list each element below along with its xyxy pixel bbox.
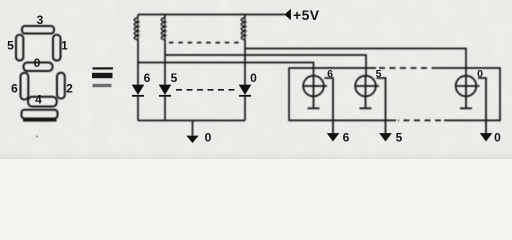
+5V arrow [285,10,291,20]
svg-text:6: 6 [343,131,350,145]
node 0 wire [245,49,466,77]
svg-text:6: 6 [144,71,151,85]
cathode bus wire [138,96,245,121]
seven-segment display: segment 2 (lower-right) [57,73,65,99]
svg-text:5: 5 [171,71,178,85]
ground symbol for lamp 5 [380,134,391,141]
svg-text:6: 6 [11,82,18,96]
seven-segment display: segment 4 (bottom) [28,97,57,107]
LED diode D0 [239,85,251,96]
node 6 wire [138,63,314,77]
resistor R2 vertical wire [164,15,166,86]
lamp L6 [303,76,334,134]
lamp L5 [355,76,386,134]
LED diode D5 [159,85,171,96]
seven-segment display: segment 6 (lower-left) [21,73,29,100]
resistor R2 zigzag [164,17,166,40]
svg-text:5: 5 [376,68,382,80]
+5V supply rail [138,14,285,16]
seven-segment display: segment 5 (upper-left) [16,35,23,61]
seven-segment display: bottom rim [22,110,58,119]
svg-text:0: 0 [494,131,501,145]
LED diode D6 [132,85,144,96]
dashed continuation between D5 and D0 [176,89,236,91]
svg-text:0: 0 [205,131,212,145]
dashed continuation between R2 and R3 [169,42,240,44]
ground symbol for lamp 0 [481,134,492,141]
resistor R1 zigzag [137,17,139,40]
ground symbol for lamp 6 [328,134,339,141]
resistor R3 vertical wire [244,15,246,86]
ground wire (common cathode) [192,121,194,137]
paper background [0,0,512,159]
node 5 wire [165,55,366,76]
seven-segment display: segment 0 (middle) [24,63,53,72]
svg-text:5: 5 [396,131,403,145]
lamp box outline [289,68,500,120]
seven-segment display: segment 1 (upper-right) [53,35,61,61]
svg-text:0: 0 [34,56,41,70]
resistor R3 zigzag [244,17,246,40]
equivalence sign [92,67,113,87]
svg-text:6: 6 [327,68,333,80]
seven-segment display: segment 3 (top) [22,26,54,34]
svg-text:1: 1 [61,39,68,53]
svg-text:4: 4 [35,93,42,107]
ground symbol (common cathode) [187,136,198,142]
svg-text:5: 5 [7,39,14,53]
svg-text:2: 2 [66,82,73,96]
svg-text:0: 0 [477,68,483,80]
svg-text:+5V: +5V [293,7,320,23]
speck under display [36,136,38,138]
svg-text:0: 0 [250,71,257,85]
svg-text:3: 3 [37,13,44,27]
resistor R1 vertical wire [137,15,139,86]
lamp L0 [455,76,486,134]
